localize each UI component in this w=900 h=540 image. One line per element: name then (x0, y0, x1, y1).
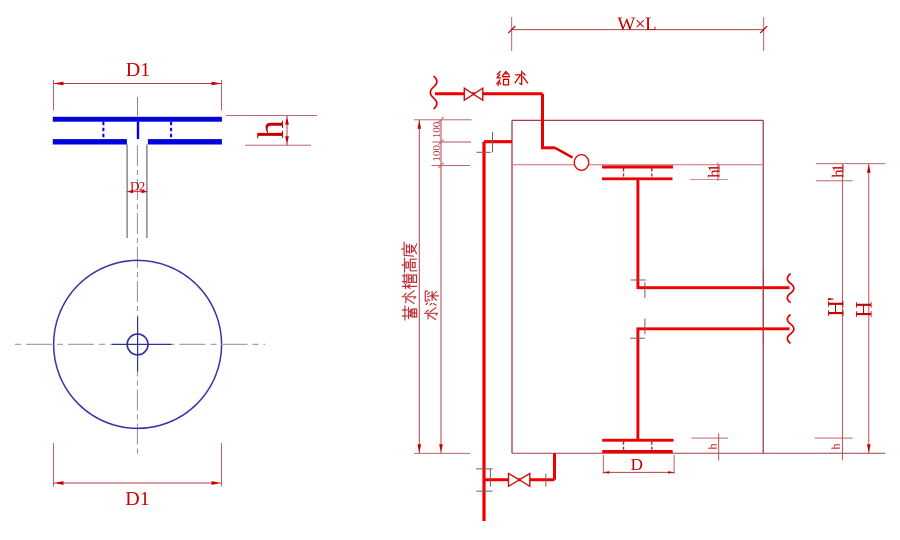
water level line (512, 164, 763, 166)
dimension D line (603, 471, 674, 474)
drain joint ticks (476, 469, 546, 491)
dimension D extension lines (603, 455, 674, 474)
dimension h bottom-left extension (692, 437, 729, 439)
centerline above plates (137, 97, 139, 116)
supply pipe break (430, 76, 437, 109)
dimension D1 top text (126, 59, 150, 81)
dimension H line (867, 164, 871, 454)
distributor dashed rib left (102, 122, 104, 139)
char 蓄 (402, 306, 416, 320)
float ball (574, 155, 588, 171)
distributor stem (137, 122, 139, 139)
dimension D2 text (130, 179, 145, 194)
svg-text:h: h (828, 444, 842, 450)
supply pipe (435, 92, 543, 95)
dimension D1 top line (54, 82, 222, 86)
overflow joint ticks (477, 132, 493, 152)
drain pipe (484, 478, 555, 481)
dimension h bottom-right text (828, 444, 842, 450)
dimension h1 inner text (704, 164, 723, 178)
lower distributor feed pipe (638, 329, 790, 440)
upper distributor feed pipe (638, 180, 790, 288)
dimension 100 upper text (431, 121, 443, 138)
tank bottom left extension (414, 452, 470, 454)
distributor bottom plate right (148, 139, 222, 144)
char 给 (497, 72, 510, 86)
dimension D1 bottom extension lines (54, 443, 222, 487)
dimension h bottom-left text (705, 444, 719, 450)
dimension 100/100 extension lines (414, 120, 472, 166)
distributor dashed rib right (170, 122, 172, 139)
dimension h line (285, 116, 289, 146)
dimension WxL extension lines (512, 17, 764, 51)
char 深 (425, 291, 438, 305)
pipe wall left (126, 145, 128, 239)
tank height label (xu shui cao gao du "蓄水槽高度") (402, 242, 417, 320)
feed pipe 2 joint ticks (630, 319, 645, 339)
char 水 (402, 291, 415, 304)
lower distributor bottom bar (602, 450, 673, 453)
lower distributor dashed ribs (624, 442, 652, 450)
tank right wall over feed pipes (762, 270, 764, 345)
char 槽 (402, 274, 416, 289)
dimension h bottom-left line (718, 433, 720, 460)
distributor bottom plate left (53, 139, 127, 144)
tank outline (512, 120, 885, 453)
svg-text:D1: D1 (125, 488, 149, 510)
dimension D1 bottom line (54, 481, 222, 485)
supply label (jishui "给水") (497, 71, 528, 85)
vertical centerline (136, 145, 138, 456)
dimension D1 top extension lines (54, 80, 222, 111)
dimension h1 inner line (717, 162, 719, 180)
upper distributor dashed ribs (624, 169, 652, 178)
feed pipe 1 joint ticks (631, 280, 646, 298)
dimension WxL text (617, 14, 656, 35)
drain valve (509, 474, 530, 487)
water depth label (shui shen "水深") (425, 291, 439, 319)
float arm (555, 148, 573, 158)
dimension h text (251, 120, 292, 139)
char 水 (425, 308, 438, 320)
overflow pipe (484, 142, 512, 521)
svg-text:D1: D1 (126, 59, 150, 81)
dimension 100 lower text (431, 145, 443, 162)
dimension h1 right extensions (816, 164, 885, 181)
horizontal centerline (10, 343, 265, 345)
dimension h1 inner extension (690, 178, 728, 180)
plan center pipe circle (127, 334, 148, 355)
dimension h extension lines (226, 116, 317, 146)
dimension D text (631, 455, 643, 474)
svg-text:H: H (851, 301, 876, 318)
svg-text:h: h (705, 444, 719, 450)
plan circle D1 (54, 260, 222, 428)
feed pipe 2 break (787, 314, 794, 343)
svg-text:W×L: W×L (617, 14, 656, 35)
char 水 (515, 71, 528, 84)
dimension WxL line (508, 26, 767, 33)
dimension D1 bottom text (125, 488, 149, 510)
dimension H' text (823, 297, 848, 317)
svg-text:h1: h1 (704, 164, 723, 178)
svg-text:h: h (251, 120, 292, 139)
distributor top plate (53, 117, 222, 122)
dimension D2 line (127, 190, 148, 193)
dimension H text (851, 301, 876, 318)
svg-text:100: 100 (431, 145, 443, 162)
pipe wall right (146, 145, 148, 239)
supply valve (464, 88, 483, 100)
svg-text:D: D (631, 455, 643, 474)
drain downpipe (553, 453, 556, 480)
supply downpipe (541, 94, 555, 148)
dimension H' line (841, 164, 843, 461)
svg-text:H': H' (823, 297, 848, 317)
upper distributor top bar (602, 166, 673, 169)
char 度 (402, 242, 417, 256)
svg-text:100: 100 (431, 121, 443, 138)
svg-text:h1: h1 (828, 164, 847, 178)
dimension h1 right text (828, 164, 847, 178)
dimension 100/100 + water depth line (438, 117, 444, 453)
feed pipe 1 break (787, 274, 794, 303)
tank height dimension line (418, 120, 422, 454)
upper distributor bottom bar (602, 177, 673, 180)
dimension h bottom-right extension (815, 437, 853, 439)
lower distributor top bar (602, 439, 673, 442)
char 高 (402, 258, 417, 272)
